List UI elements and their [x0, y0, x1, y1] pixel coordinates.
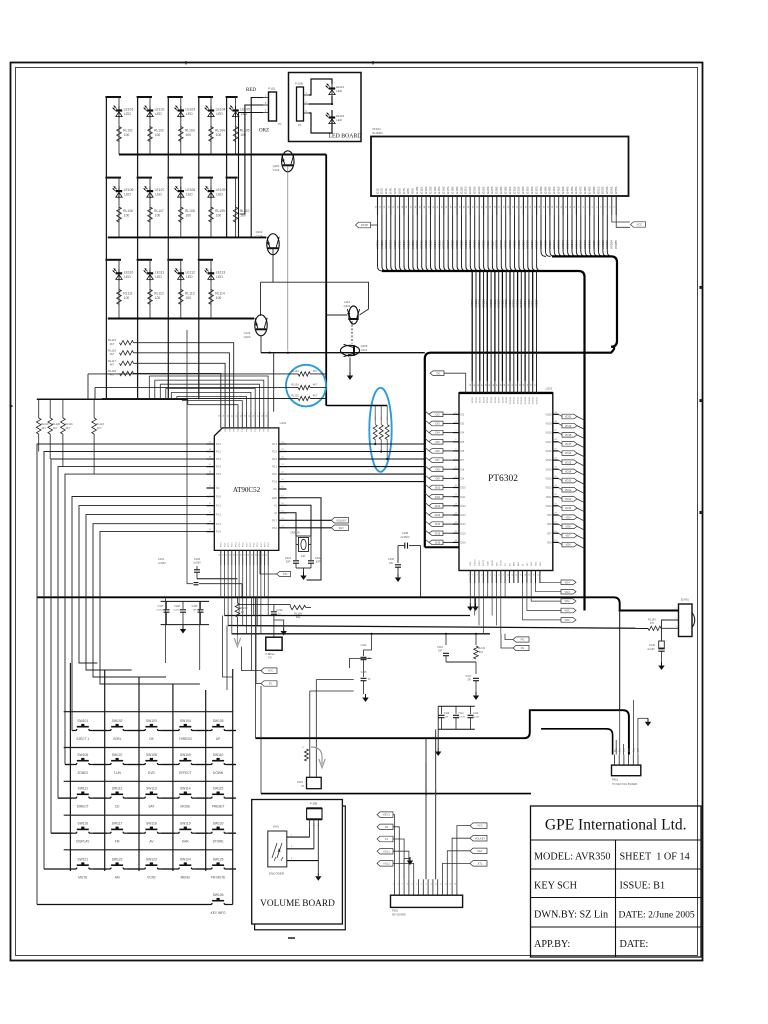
net flag VCC mid — [242, 647, 278, 674]
switch SW125 FM MUTE — [208, 857, 228, 879]
svg-text:100: 100 — [216, 296, 222, 300]
resistor RL123 4K7 — [291, 370, 318, 376]
svg-text:ISSUE: B1: ISSUE: B1 — [620, 881, 666, 892]
svg-text:LE101: LE101 — [124, 108, 134, 112]
wire VFD left bundle to bus — [378, 215, 542, 271]
capacitor C116 10F — [437, 634, 476, 662]
svg-text:G6S: G6S — [397, 188, 401, 194]
switch SW118 AV — [141, 822, 161, 844]
bus VCC y597 — [37, 597, 679, 610]
switch SW103 OK — [141, 719, 161, 741]
wire PT6302 top feed bundle — [472, 271, 536, 381]
capacitor C401 30P — [285, 545, 299, 569]
bus y793 — [261, 793, 531, 795]
svg-text:RL122: RL122 — [96, 422, 104, 426]
P201 pin stubs — [393, 879, 457, 895]
wire LED cell col3 row3 — [167, 260, 183, 319]
svg-text:VD15: VD15 — [565, 460, 572, 464]
net flag XTAL — [260, 550, 291, 576]
wire LED cell col1 row3 — [105, 260, 121, 319]
module box VOLUME BOARD — [252, 800, 343, 925]
svg-text:SW118: SW118 — [146, 822, 157, 826]
svg-text:C110: C110 — [444, 713, 450, 715]
svg-text:DI2: DI2 — [435, 412, 440, 416]
svg-text:10F: 10F — [389, 562, 394, 565]
switch SW124 MENU — [175, 857, 195, 879]
svg-text:4K7: 4K7 — [110, 363, 115, 367]
LED LE110 — [113, 268, 134, 280]
wire key matrix row lines — [37, 731, 236, 905]
svg-text:G43S: G43S — [561, 187, 565, 194]
svg-text:DI6: DI6 — [435, 449, 440, 453]
svg-text:DI15: DI15 — [461, 532, 467, 535]
wire LED cell col5 row2 — [226, 178, 238, 238]
svg-text:C401: C401 — [285, 556, 292, 560]
svg-text:LED: LED — [216, 193, 223, 197]
svg-text:DCR8: DCR8 — [502, 396, 504, 403]
svg-text:DI10: DI10 — [461, 487, 467, 490]
svg-text:VOLUME BOARD: VOLUME BOARD — [260, 899, 335, 909]
svg-text:23: 23 — [266, 554, 268, 556]
svg-text:SG1: SG1 — [531, 561, 533, 566]
svg-text:G15S: G15S — [437, 187, 441, 194]
net flag 5V mid — [256, 597, 277, 686]
svg-text:P2.2: P2.2 — [257, 542, 259, 547]
svg-text:20: 20 — [255, 554, 257, 556]
svg-text:22: 22 — [263, 554, 265, 556]
svg-text:SW111: SW111 — [78, 787, 88, 791]
resistor RL127 — [379, 406, 383, 452]
svg-text:LE113: LE113 — [216, 270, 226, 274]
LED LE107 — [144, 186, 165, 198]
svg-text:2u4/50V: 2u4/50V — [401, 536, 410, 539]
svg-text:VD19: VD19 — [546, 423, 553, 426]
wire LED board wiring — [309, 79, 333, 133]
svg-text:C104: C104 — [194, 557, 201, 561]
svg-text:KEY1: KEY1 — [383, 813, 390, 817]
svg-text:VD8: VD8 — [565, 524, 571, 528]
svg-text:15: 15 — [529, 574, 531, 576]
svg-text:FM MUTE: FM MUTE — [211, 875, 226, 879]
ground C117 — [473, 692, 479, 700]
border outer frame — [11, 63, 703, 961]
svg-text:C107: C107 — [158, 605, 164, 608]
svg-text:470: 470 — [650, 622, 655, 625]
svg-text:P0.2: P0.2 — [229, 426, 231, 431]
net flags VD bank2 staircase — [523, 580, 577, 622]
switch SW112 CD — [107, 787, 127, 809]
svg-text:P0.5: P0.5 — [242, 426, 244, 431]
svg-text:15: 15 — [237, 554, 239, 556]
svg-text:2u/50V: 2u/50V — [174, 610, 181, 612]
svg-text:G37S: G37S — [534, 187, 538, 194]
resistor RL124 4K7 — [291, 384, 318, 390]
title block KEY SCH row — [534, 881, 665, 892]
wire headphone jack feed — [619, 611, 621, 711]
svg-text:SW103: SW103 — [146, 719, 157, 723]
svg-text:SW125: SW125 — [213, 857, 224, 861]
svg-text:OSCI: OSCI — [479, 560, 481, 566]
resistor RL111 — [117, 289, 133, 304]
svg-text:VOL1: VOL1 — [383, 849, 390, 853]
bus top of RL125-127 — [326, 405, 387, 407]
svg-text:VD13: VD13 — [546, 478, 553, 481]
switch SW101 EJECT 1 — [73, 719, 93, 741]
svg-text:SW109: SW109 — [180, 753, 191, 757]
svg-text:G2S: G2S — [380, 188, 384, 194]
resistor RL118 4K7 (ladder) — [108, 369, 134, 377]
svg-text:VD18: VD18 — [565, 433, 572, 437]
svg-text:VD12: VD12 — [546, 487, 553, 490]
svg-text:P1.3: P1.3 — [216, 523, 222, 526]
svg-text:G49S: G49S — [588, 187, 592, 194]
svg-text:P3.7: P3.7 — [246, 542, 248, 547]
switch SW126 KEY INFO — [208, 893, 228, 915]
svg-text:RL109: RL109 — [215, 209, 225, 213]
svg-text:G47S: G47S — [579, 187, 583, 194]
svg-text:SW105: SW105 — [213, 719, 224, 723]
svg-text:12: 12 — [516, 574, 518, 576]
capacitor C106 10F — [388, 546, 401, 574]
svg-text:G16S: G16S — [442, 187, 446, 194]
svg-text:4K7: 4K7 — [313, 370, 318, 373]
svg-text:DI15: DI15 — [435, 531, 441, 535]
connector P201 — [391, 895, 463, 916]
svg-text:17: 17 — [538, 574, 540, 576]
wire mid staircase — [349, 658, 371, 668]
wire caps cluster rails (left) — [161, 601, 209, 624]
IC U201 PT6302 body — [459, 387, 553, 571]
svg-text:3: 3 — [402, 883, 404, 884]
capacitor C112 27u/10V — [453, 706, 465, 729]
ground volume board — [315, 873, 321, 881]
highlight blue circle (resistor group RL122-124) — [286, 365, 326, 407]
ground C115 — [362, 694, 368, 702]
svg-text:SO: SO — [527, 563, 529, 566]
svg-text:G10S: G10S — [415, 187, 419, 194]
title block MODEL row — [534, 852, 690, 863]
svg-text:LED: LED — [336, 118, 343, 122]
wire LED cell col2 row1 — [137, 97, 152, 155]
svg-text:8: 8 — [499, 574, 501, 575]
switch SW108 DVD — [141, 753, 161, 775]
svg-text:P0.6: P0.6 — [247, 426, 249, 431]
wire LED cell col4 row1 — [198, 97, 213, 155]
svg-text:SW107: SW107 — [112, 753, 123, 757]
capacitor C113 27u/16V — [468, 706, 480, 729]
svg-text:100: 100 — [124, 296, 130, 300]
svg-text:P0.3: P0.3 — [268, 426, 270, 431]
title block DWN.BY row — [534, 910, 695, 921]
wire left nested routing from U101 — [37, 444, 207, 905]
svg-text:RL117: RL117 — [108, 359, 116, 363]
svg-text:P-10B: P-10B — [295, 82, 303, 86]
resistor RL119 4K7 (pullup) — [36, 399, 49, 451]
svg-text:G50S: G50S — [592, 187, 596, 194]
svg-text:GND: GND — [272, 497, 278, 500]
svg-text:11: 11 — [441, 883, 443, 885]
wire LED cell col2 row3 — [137, 260, 152, 319]
svg-text:RL102: RL102 — [154, 129, 164, 133]
encoder VR301 — [268, 825, 287, 876]
svg-text:SHEET 1 OF 14: SHEET 1 OF 14 — [620, 852, 690, 863]
capacitor C402 30P — [308, 545, 322, 569]
svg-text:P1.2: P1.2 — [216, 514, 222, 517]
resistor RL120 4K7 (pullup) — [48, 399, 61, 459]
svg-text:30P: 30P — [286, 560, 291, 564]
svg-text:DI12: DI12 — [435, 504, 441, 508]
title block frame — [531, 806, 702, 957]
svg-text:100: 100 — [186, 133, 192, 137]
U-VF101 pin stubs and numbers — [375, 196, 616, 215]
svg-text:14: 14 — [233, 554, 235, 556]
svg-text:VSS: VSS — [470, 561, 472, 566]
svg-text:2: 2 — [397, 883, 399, 884]
headphone jack EJ401 — [675, 598, 694, 637]
svg-text:SW126: SW126 — [213, 893, 224, 897]
svg-text:4: 4 — [481, 574, 483, 575]
svg-text:DI1: DI1 — [436, 371, 441, 375]
svg-text:G44S: G44S — [565, 187, 569, 194]
svg-text:35: 35 — [249, 415, 251, 417]
svg-text:10F: 10F — [193, 610, 197, 612]
svg-text:G9S: G9S — [411, 188, 415, 194]
resistor RL105 — [233, 127, 249, 142]
dash mark below volume board — [288, 937, 295, 939]
svg-text:VD14: VD14 — [546, 468, 553, 471]
svg-text:PG: PG — [521, 638, 525, 642]
svg-text:P1.5: P1.5 — [268, 542, 270, 547]
switch SW117 FM — [107, 822, 127, 844]
svg-text:P3.3: P3.3 — [232, 542, 234, 547]
svg-text:G34S: G34S — [521, 187, 525, 194]
svg-text:1u/50V: 1u/50V — [193, 562, 201, 565]
svg-text:DCSP: DCSP — [361, 223, 368, 227]
connector VF101 (VFD display) — [371, 127, 629, 196]
svg-text:P1: P1 — [278, 122, 282, 126]
svg-text:LE103: LE103 — [185, 108, 195, 112]
svg-text:1: 1 — [468, 574, 470, 575]
svg-text:VCC: VCC — [268, 669, 274, 673]
switch SW120 STORE — [208, 822, 228, 844]
wire PT6302 bottom pins routing — [475, 583, 505, 634]
bus y728 left segment — [245, 728, 541, 730]
svg-text:4K7: 4K7 — [97, 426, 102, 430]
svg-text:DI5: DI5 — [461, 441, 465, 444]
svg-text:RL114: RL114 — [215, 291, 225, 295]
ground C140 — [658, 662, 664, 670]
transistor Q102 — [256, 230, 280, 255]
resistor RL109 — [209, 207, 225, 222]
wire volume board wiring — [287, 823, 319, 873]
svg-text:KEY SCH: KEY SCH — [534, 881, 578, 892]
svg-text:38: 38 — [262, 415, 264, 417]
switch SW102 VCR1 — [107, 719, 127, 741]
svg-text:CLKB: CLKB — [492, 560, 494, 566]
svg-text:Q103: Q103 — [244, 335, 251, 339]
wire LED cell col4 row2 — [198, 178, 213, 238]
resistor RL108 — [179, 207, 195, 222]
svg-text:SG3: SG3 — [540, 561, 542, 566]
svg-text:KEY: KEY — [339, 526, 344, 530]
capacitor C109 10F — [192, 601, 204, 624]
svg-text:G7S: G7S — [402, 188, 406, 194]
svg-text:P3.6: P3.6 — [272, 527, 278, 530]
svg-text:G20S: G20S — [459, 187, 463, 194]
svg-text:P3.3: P3.3 — [216, 458, 222, 461]
svg-text:G3S: G3S — [384, 188, 388, 194]
svg-text:ORZ: ORZ — [259, 129, 269, 134]
svg-text:G45S: G45S — [570, 187, 574, 194]
wire LED cell col1 row2 — [105, 178, 121, 238]
wire U101 right pins to DI bus — [287, 443, 425, 482]
wire U101 GND/X1/X2 to crystal — [287, 498, 322, 580]
svg-text:7: 7 — [494, 574, 496, 575]
wire transistor network — [261, 155, 425, 412]
svg-text:P1.1: P1.1 — [224, 542, 226, 547]
switch SW113 SAT — [141, 787, 161, 809]
svg-text:DI6: DI6 — [461, 450, 465, 453]
svg-text:DATE:: DATE: — [620, 939, 649, 950]
svg-text:39: 39 — [266, 415, 268, 417]
svg-text:G8S: G8S — [406, 188, 410, 194]
svg-text:K1: K1 — [385, 837, 389, 841]
svg-text:P0.0: P0.0 — [255, 426, 257, 431]
LED LE102 — [144, 106, 165, 118]
svg-text:P201: P201 — [392, 909, 399, 913]
svg-text:P3.2: P3.2 — [216, 451, 222, 454]
svg-text:FG: FG — [521, 646, 525, 650]
switch SW122 AM — [107, 857, 127, 879]
svg-text:P3.4: P3.4 — [216, 466, 222, 469]
svg-text:PT6302: PT6302 — [488, 474, 518, 484]
svg-text:100: 100 — [186, 296, 192, 300]
svg-text:VCC: VCC — [637, 223, 643, 227]
svg-text:VD1: VD1 — [564, 609, 570, 613]
svg-text:RL115: RL115 — [108, 338, 116, 342]
capacitor C107 27u/50V — [156, 601, 169, 624]
svg-text:DI11: DI11 — [435, 495, 441, 499]
svg-text:VD6: VD6 — [565, 543, 571, 547]
svg-text:31: 31 — [232, 415, 234, 417]
svg-text:7: 7 — [421, 883, 423, 884]
svg-text:42: 42 — [478, 384, 480, 386]
svg-text:DI11: DI11 — [461, 496, 467, 499]
wire LED row1 bus — [119, 154, 326, 156]
svg-text:18: 18 — [248, 554, 250, 556]
wire LED cell col4 row3 — [198, 260, 213, 319]
svg-text:43: 43 — [482, 384, 484, 386]
svg-text:13: 13 — [521, 574, 523, 576]
svg-text:RL101: RL101 — [123, 129, 133, 133]
svg-text:28: 28 — [219, 415, 221, 417]
svg-text:10: 10 — [219, 554, 221, 556]
svg-text:56: 56 — [531, 384, 533, 386]
resistor RL104 — [209, 127, 225, 142]
net flags P201 right — [443, 823, 488, 879]
svg-text:K0: K0 — [385, 825, 389, 829]
resistor RL114 — [209, 289, 225, 304]
svg-text:AM: AM — [115, 875, 120, 879]
wire right feeds into matrix — [165, 597, 232, 690]
svg-text:51: 51 — [512, 384, 514, 386]
resistor RL107 — [148, 207, 164, 222]
svg-text:P3.7: P3.7 — [272, 519, 278, 522]
svg-text:DI13: DI13 — [435, 513, 441, 517]
svg-text:EJ401: EJ401 — [681, 598, 689, 602]
svg-text:MENU: MENU — [181, 875, 191, 879]
svg-text:9: 9 — [431, 883, 433, 884]
svg-text:50: 50 — [508, 384, 510, 386]
svg-text:VD13: VD13 — [565, 479, 572, 483]
svg-text:P2.0: P2.0 — [272, 473, 278, 476]
svg-text:C106: C106 — [388, 557, 395, 561]
wire C101 branch — [187, 330, 199, 585]
svg-text:32: 32 — [236, 415, 238, 417]
svg-text:THRESG: THRESG — [179, 737, 193, 741]
bus 710 to P401 — [541, 710, 629, 754]
wire key matrix column verticals — [70, 663, 232, 905]
resistor RL112 — [148, 289, 164, 304]
svg-text:RL140: RL140 — [648, 618, 656, 622]
svg-text:ZONE2: ZONE2 — [77, 771, 88, 775]
svg-text:VD20: VD20 — [565, 415, 572, 419]
ground caps cluster left — [180, 625, 186, 634]
svg-text:DI14: DI14 — [435, 522, 441, 526]
svg-text:100: 100 — [155, 296, 161, 300]
svg-text:G53S: G53S — [605, 187, 609, 194]
svg-text:54: 54 — [523, 384, 525, 386]
svg-text:DI2: DI2 — [461, 413, 465, 416]
connector P301 (volume board) — [307, 802, 322, 829]
U101 left pins, numbers and names — [207, 442, 222, 534]
switch SW115 PRESET — [208, 787, 228, 809]
switch SW110 DOWN — [208, 753, 228, 775]
switch SW106 ZONE2 — [73, 753, 93, 775]
svg-text:VCC: VCC — [477, 824, 483, 828]
svg-text:DI7: DI7 — [435, 458, 440, 462]
LED LE101 — [113, 106, 134, 118]
svg-text:4: 4 — [407, 883, 409, 884]
svg-text:P3.3: P3.3 — [261, 542, 263, 547]
svg-text:SW101: SW101 — [77, 719, 88, 723]
resistor RL121 4K7 (pullup) — [61, 399, 74, 466]
svg-text:DCR0: DCR0 — [472, 396, 474, 403]
svg-text:KEY: KEY — [477, 849, 482, 853]
svg-text:100: 100 — [124, 214, 130, 218]
svg-text:SW121: SW121 — [77, 857, 88, 861]
svg-text:VD3: VD3 — [564, 590, 570, 594]
net labels P401 wires (vertical) — [616, 747, 640, 752]
svg-text:DIN: DIN — [496, 562, 498, 566]
svg-text:RL111: RL111 — [123, 291, 132, 295]
connector P103 — [265, 620, 282, 660]
ground stub from VCC bus — [472, 597, 478, 611]
svg-text:KEY INFO: KEY INFO — [211, 911, 226, 915]
svg-text:LED: LED — [155, 275, 162, 279]
svg-text:DATE: 2/June 2005: DATE: 2/June 2005 — [619, 910, 695, 921]
svg-text:100: 100 — [155, 133, 161, 137]
svg-text:46: 46 — [493, 384, 495, 386]
net flag PG — [505, 634, 529, 642]
svg-text:VD16: VD16 — [546, 450, 553, 453]
svg-text:100: 100 — [155, 214, 161, 218]
wire U201 pin DI1 flag — [430, 371, 466, 393]
svg-text:P1.0: P1.0 — [216, 496, 222, 499]
svg-text:G19S: G19S — [455, 187, 459, 194]
svg-text:VD9: VD9 — [547, 514, 552, 517]
LED LE108 — [174, 186, 195, 198]
